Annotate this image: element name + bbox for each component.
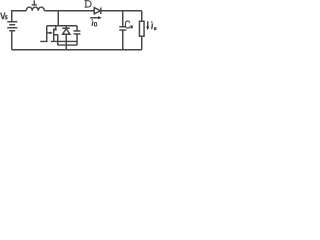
- snubber capacitor bottom lead: [76, 34, 78, 45]
- wire node A: [51, 40, 77, 42]
- arrow i_D: [90, 17, 99, 19]
- transistor Q1 drain lead: [55, 26, 57, 30]
- wire top node: [47, 25, 77, 27]
- battery source Vs plates: [7, 21, 17, 23]
- label C (capacitor): [125, 21, 130, 28]
- load branch top: [141, 11, 143, 22]
- label C subscript blob: [130, 25, 133, 28]
- capacitor C plates: [119, 26, 126, 28]
- transistor Q1 source lead: [57, 35, 59, 45]
- label subscript blob of i_o: [154, 27, 156, 30]
- label s subscript of Vs: [5, 16, 7, 19]
- snubber capacitor plates: [74, 30, 81, 32]
- arrow i_o: [147, 21, 149, 28]
- transistor Q1 gate lead: [47, 32, 50, 34]
- inductor L: [26, 7, 44, 11]
- body diode anode lead: [65, 34, 67, 50]
- bottom rail: [12, 49, 142, 51]
- transistor Q1 gate tail: [40, 26, 47, 42]
- body diode triangle: [63, 29, 70, 35]
- label i of i_o: [151, 21, 153, 23]
- wire drain feed: [57, 11, 59, 26]
- capacitor C branch bottom: [122, 30, 124, 50]
- wire top rail right: [101, 10, 142, 12]
- body diode stub: [65, 26, 67, 29]
- label D subscript of i_D: [94, 23, 96, 27]
- transistor Q1 gate bar: [53, 28, 55, 41]
- body diode cathode bar: [62, 27, 70, 29]
- diode D triangle: [94, 8, 100, 14]
- label D (diode): [85, 1, 92, 7]
- label V of Vs: [1, 12, 5, 19]
- capacitor C branch top: [122, 11, 124, 27]
- label i of i_D: [92, 19, 94, 21]
- wire battery bottom to rail: [11, 31, 13, 50]
- diode D cathode bar: [100, 7, 102, 14]
- load branch bottom: [141, 36, 143, 50]
- wire top rail middle: [44, 10, 94, 12]
- inductor label glyph: [32, 0, 37, 5]
- transistor Q1 source bar: [54, 34, 58, 36]
- transistor Q1 drain bar: [54, 29, 57, 31]
- load resistor box: [139, 21, 144, 36]
- transistor Q1 gate arrowhead: [50, 31, 53, 34]
- wire node B: [58, 44, 77, 46]
- snubber capacitor top lead: [76, 26, 78, 31]
- wire top rail left: [12, 11, 27, 22]
